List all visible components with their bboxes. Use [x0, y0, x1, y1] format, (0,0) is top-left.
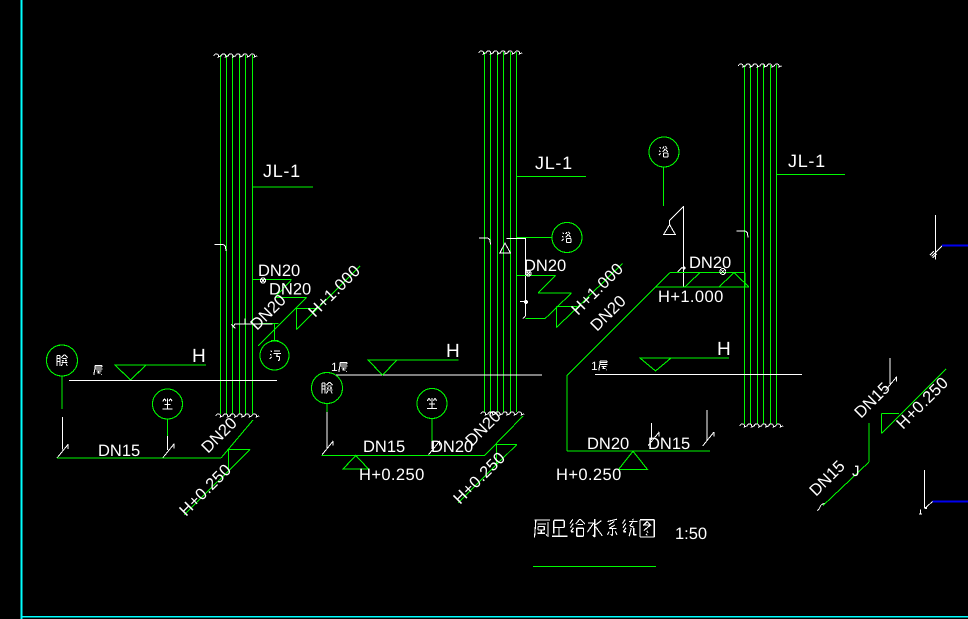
- valve group1 branch: [260, 278, 265, 283]
- leader H+1.000 group1 with triangle: [297, 266, 361, 330]
- svg-text:DN20: DN20: [258, 262, 300, 280]
- wire riser1 bottom diagonal: [221, 420, 253, 458]
- wire diagonal DN15 far right: [823, 462, 869, 506]
- riser JL-1 group3 pipes: [745, 65, 777, 424]
- wire drop from yu3: [663, 167, 665, 206]
- wire branch diagonal b group2: [545, 293, 572, 319]
- wire tick group1: [260, 323, 279, 325]
- fixture circle zuo group1: [153, 389, 183, 419]
- shower pipe white group2: [506, 239, 525, 319]
- wire riser2 bottom diagonal: [485, 416, 523, 455]
- arrow top right: [930, 215, 942, 260]
- leader H+1.000 group2 with triangle: [557, 264, 623, 328]
- pipe clamp riser1: [215, 245, 226, 252]
- arrow bottom right: [919, 470, 933, 514]
- riser JL-1 group1 pipes: [221, 55, 253, 414]
- leader H+0.250 far right: [882, 369, 947, 434]
- wire JL-1 underline group1: [253, 186, 314, 188]
- faucet arrow lian2: [322, 412, 333, 455]
- svg-text:DN20: DN20: [587, 435, 629, 453]
- svg-text:DN15: DN15: [98, 442, 140, 460]
- shower spray triangle group2: [500, 243, 511, 253]
- riser JL-1 group2 pipes: [485, 52, 517, 412]
- valve group3 top line: [720, 269, 726, 275]
- wire drop zuo2: [431, 419, 433, 442]
- svg-text:H+0.250: H+0.250: [556, 466, 622, 484]
- wire drop from lian1: [61, 376, 63, 409]
- wire DN15 branch line group1: [57, 457, 221, 459]
- svg-text:H: H: [717, 339, 731, 360]
- wire JL-1 underline group3: [777, 174, 846, 176]
- wire right vert group3 marker: [744, 273, 746, 287]
- wire branch diagonal a group2: [538, 275, 556, 293]
- wire blue line top right: [942, 244, 968, 246]
- level triangle group2: [368, 360, 397, 375]
- wire hatch diagonal group3: [685, 273, 700, 287]
- pipe clamp riser2: [479, 238, 490, 245]
- faucet arrow group3 b: [703, 410, 714, 446]
- wire branch diagonal a group1: [275, 280, 292, 298]
- faucet arrow group3 a: [648, 423, 659, 446]
- label ceng group1: [94, 366, 103, 375]
- wire vertical pipe far right: [868, 423, 870, 462]
- shower symbol white group3: [664, 206, 684, 287]
- svg-text:JL-1: JL-1: [535, 153, 573, 173]
- wire left border cyan line: [21, 0, 23, 619]
- pipe break bottom riser3: [740, 424, 783, 427]
- pipe end hook far right: [817, 504, 825, 511]
- wire branch B group1: [275, 296, 307, 298]
- wire tbar wu circle: [271, 339, 278, 341]
- svg-text:J: J: [852, 463, 860, 480]
- wire branch A group2: [517, 274, 556, 276]
- svg-text:H: H: [192, 346, 206, 367]
- pipe break top riser3: [739, 64, 782, 67]
- level triangle group1: [115, 365, 146, 380]
- wire blue line bottom right: [933, 500, 968, 502]
- wire level line group2: [368, 359, 459, 361]
- fixture circle lian group1: [47, 345, 78, 376]
- pipe clamp riser3: [737, 231, 748, 238]
- wire branch B group2: [538, 292, 572, 294]
- wire drop to wu circle: [274, 324, 276, 341]
- pipe break bottom riser2: [481, 412, 524, 415]
- wire to yu circle group2: [517, 237, 552, 239]
- wire drop from zuo1: [167, 419, 169, 436]
- pipe break bottom riser1: [216, 414, 259, 417]
- elevation triangle group3: [619, 451, 648, 469]
- fixture circle yu group3: [649, 137, 679, 167]
- leader H+0.250 group1 with triangle: [184, 450, 250, 516]
- svg-text:H: H: [446, 341, 460, 362]
- wire long diagonal pipe: [567, 273, 670, 376]
- title kitchen bathroom water supply system diagram: [535, 520, 551, 538]
- valve group2 branch: [526, 271, 531, 276]
- faucet arrow zuo2: [429, 441, 440, 455]
- wire tick group2: [525, 318, 545, 320]
- svg-text:1: 1: [591, 359, 598, 373]
- faucet arrow far right top: [886, 358, 897, 391]
- wire floor line group1 white: [69, 380, 277, 382]
- fixture circle lian group2: [312, 373, 343, 404]
- pipe break top riser1: [214, 54, 257, 57]
- svg-text:JL-1: JL-1: [788, 151, 826, 171]
- level triangle group3: [640, 358, 671, 371]
- svg-text:H+0.250: H+0.250: [359, 466, 425, 484]
- svg-text:H+1.000: H+1.000: [658, 288, 724, 306]
- wire title underline: [533, 566, 656, 568]
- wire level line group3: [640, 357, 729, 359]
- fixture circle wu group1: [260, 341, 289, 370]
- faucet arrow zuo1: [163, 436, 174, 458]
- pipe break top riser2: [479, 51, 522, 54]
- wire DN20 DN15 line group3: [567, 450, 710, 452]
- leader H+0.250 group2 right: [458, 445, 517, 504]
- wire floor line group3 white: [595, 374, 802, 376]
- wire branch diagonal b group1: [258, 297, 307, 346]
- wire level line group1: [115, 364, 206, 366]
- wire H+1.000 bottom line group3: [655, 286, 749, 288]
- wire branch A group1: [253, 279, 292, 281]
- fixture circle yu group2: [552, 223, 582, 253]
- faucet arrow lian1: [57, 417, 68, 458]
- wire floor line group2 white: [335, 374, 542, 376]
- fixture circle zuo group2: [417, 389, 447, 419]
- wire H+1.000 top line group3: [670, 272, 745, 274]
- wire triangle hatch group3: [719, 273, 749, 287]
- svg-text:1: 1: [331, 360, 338, 374]
- wire JL-1 underline group2: [517, 176, 587, 178]
- wire drop lian2: [326, 404, 328, 413]
- wire vertical pipe group3: [566, 376, 568, 451]
- wire bottom border cyan line: [22, 616, 968, 618]
- svg-text:JL-1: JL-1: [263, 161, 301, 181]
- svg-text:1:50: 1:50: [675, 525, 707, 543]
- faucet tap white group1: [231, 319, 272, 329]
- wire DN15 line group2: [322, 454, 485, 456]
- svg-text:DN15: DN15: [363, 438, 405, 456]
- elevation triangle group2 left: [343, 456, 369, 470]
